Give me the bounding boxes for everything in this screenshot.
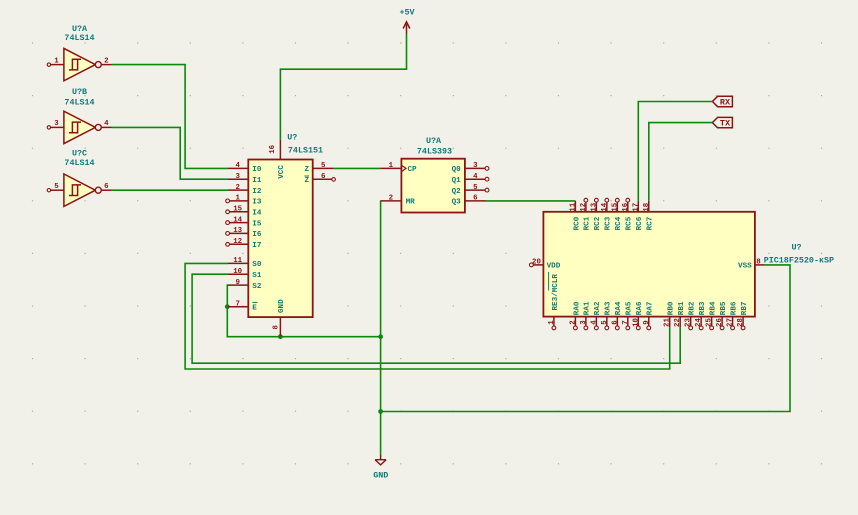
- svg-text:RA4: RA4: [615, 301, 623, 315]
- svg-text:28: 28: [737, 318, 745, 327]
- svg-text:RB5: RB5: [720, 301, 728, 315]
- svg-text:RC6: RC6: [636, 216, 644, 230]
- svg-text:E: E: [252, 305, 257, 313]
- svg-text:20: 20: [532, 259, 541, 267]
- svg-text:RB1: RB1: [678, 301, 686, 315]
- svg-text:1: 1: [235, 195, 240, 203]
- svg-text:RE3/MCLR: RE3/MCLR: [552, 274, 560, 311]
- svg-text:4: 4: [104, 120, 109, 128]
- svg-text:GND: GND: [373, 471, 388, 481]
- svg-text:4: 4: [235, 162, 240, 170]
- svg-text:RB7: RB7: [741, 301, 749, 315]
- svg-text:6: 6: [611, 320, 619, 325]
- svg-text:U?C: U?C: [72, 148, 87, 158]
- svg-text:RB2: RB2: [689, 301, 697, 315]
- svg-text:GND: GND: [278, 299, 286, 313]
- svg-text:I4: I4: [252, 210, 262, 218]
- svg-text:1: 1: [54, 57, 59, 65]
- svg-text:9: 9: [643, 320, 651, 324]
- svg-text:15: 15: [611, 202, 619, 211]
- svg-text:RB6: RB6: [730, 301, 738, 315]
- svg-text:Q1: Q1: [452, 177, 462, 185]
- svg-text:RA1: RA1: [584, 301, 592, 315]
- svg-text:5: 5: [54, 183, 59, 191]
- svg-text:6: 6: [104, 183, 109, 191]
- svg-text:U?B: U?B: [72, 87, 87, 97]
- svg-text:I2: I2: [252, 188, 262, 196]
- svg-text:23: 23: [685, 318, 693, 327]
- svg-text:16: 16: [622, 202, 630, 211]
- svg-text:U?A: U?A: [426, 136, 442, 146]
- svg-text:+5V: +5V: [399, 8, 415, 18]
- svg-text:RA2: RA2: [594, 301, 602, 315]
- svg-text:S2: S2: [252, 283, 262, 291]
- svg-text:U?: U?: [791, 243, 801, 253]
- svg-text:74LS14: 74LS14: [64, 33, 94, 43]
- svg-text:10: 10: [233, 268, 242, 276]
- svg-text:RC2: RC2: [594, 216, 602, 230]
- svg-text:3: 3: [473, 162, 478, 170]
- svg-text:10: 10: [632, 318, 640, 327]
- svg-text:U?: U?: [287, 132, 297, 142]
- svg-text:4: 4: [473, 173, 478, 181]
- svg-text:RC4: RC4: [615, 216, 623, 230]
- svg-text:Q0: Q0: [452, 166, 462, 174]
- svg-text:Z: Z: [304, 177, 309, 185]
- svg-text:5: 5: [473, 184, 478, 192]
- svg-text:24: 24: [695, 318, 703, 327]
- svg-text:11: 11: [233, 257, 242, 265]
- svg-text:VCC: VCC: [278, 165, 286, 179]
- svg-text:VSS: VSS: [738, 263, 752, 271]
- svg-text:1: 1: [389, 162, 394, 170]
- svg-text:I1: I1: [252, 177, 262, 185]
- svg-text:7: 7: [622, 320, 630, 324]
- svg-text:74LS14: 74LS14: [64, 158, 94, 168]
- svg-text:25: 25: [706, 318, 714, 327]
- svg-text:8: 8: [756, 259, 761, 267]
- svg-text:RC3: RC3: [605, 216, 613, 230]
- svg-text:RC7: RC7: [647, 216, 655, 230]
- svg-text:CP: CP: [408, 166, 418, 174]
- svg-text:6: 6: [473, 195, 478, 203]
- svg-text:Q3: Q3: [452, 199, 462, 207]
- svg-text:RA0: RA0: [573, 301, 581, 315]
- svg-text:RC0: RC0: [573, 216, 581, 230]
- svg-text:Z: Z: [304, 166, 309, 174]
- svg-text:1: 1: [548, 320, 556, 325]
- svg-text:11: 11: [569, 202, 577, 211]
- svg-text:RB4: RB4: [709, 301, 717, 315]
- svg-text:S1: S1: [252, 272, 262, 280]
- svg-text:4: 4: [590, 320, 598, 325]
- svg-text:MR: MR: [406, 199, 416, 207]
- svg-text:74LS151: 74LS151: [288, 145, 323, 155]
- svg-text:RA6: RA6: [636, 301, 644, 315]
- svg-text:14: 14: [601, 202, 609, 211]
- svg-text:RA7: RA7: [647, 301, 655, 315]
- svg-text:26: 26: [716, 318, 724, 327]
- svg-text:RC5: RC5: [626, 216, 634, 230]
- svg-text:RC1: RC1: [584, 216, 592, 230]
- svg-text:17: 17: [632, 203, 640, 212]
- svg-text:RB0: RB0: [668, 301, 676, 315]
- svg-text:13: 13: [233, 227, 242, 235]
- svg-text:I0: I0: [252, 166, 262, 174]
- svg-text:RX: RX: [720, 98, 731, 108]
- svg-text:I5: I5: [252, 220, 262, 228]
- svg-text:74LS14: 74LS14: [64, 98, 94, 108]
- svg-text:15: 15: [233, 206, 242, 214]
- svg-text:VDD: VDD: [547, 263, 561, 271]
- svg-text:I6: I6: [252, 231, 262, 239]
- svg-text:RB3: RB3: [699, 301, 707, 315]
- svg-text:S0: S0: [252, 261, 262, 269]
- svg-text:5: 5: [601, 320, 609, 325]
- svg-text:I3: I3: [252, 199, 262, 207]
- svg-text:7: 7: [235, 300, 239, 308]
- svg-text:22: 22: [674, 318, 682, 327]
- svg-text:RA5: RA5: [626, 301, 634, 315]
- svg-text:14: 14: [233, 216, 242, 224]
- svg-text:21: 21: [664, 318, 672, 327]
- svg-text:16: 16: [269, 144, 277, 153]
- svg-text:I7: I7: [252, 242, 262, 250]
- svg-text:13: 13: [590, 202, 598, 211]
- svg-text:12: 12: [580, 203, 588, 212]
- svg-text:3: 3: [235, 173, 240, 181]
- svg-text:2: 2: [569, 320, 577, 324]
- svg-text:12: 12: [233, 238, 242, 246]
- svg-text:PIC18F2520-κSP: PIC18F2520-κSP: [764, 255, 834, 265]
- svg-text:3: 3: [580, 320, 588, 325]
- svg-text:Q2: Q2: [452, 188, 462, 196]
- svg-text:TX: TX: [720, 119, 731, 129]
- svg-text:74LS393: 74LS393: [417, 147, 452, 157]
- svg-text:8: 8: [273, 325, 281, 330]
- svg-text:2: 2: [235, 184, 239, 192]
- svg-text:6: 6: [321, 173, 326, 181]
- svg-text:9: 9: [235, 279, 239, 287]
- svg-text:3: 3: [54, 120, 59, 128]
- svg-text:2: 2: [104, 57, 108, 65]
- svg-text:RA3: RA3: [605, 301, 613, 315]
- svg-text:18: 18: [643, 202, 651, 211]
- svg-text:2: 2: [389, 195, 393, 203]
- svg-text:5: 5: [321, 162, 326, 170]
